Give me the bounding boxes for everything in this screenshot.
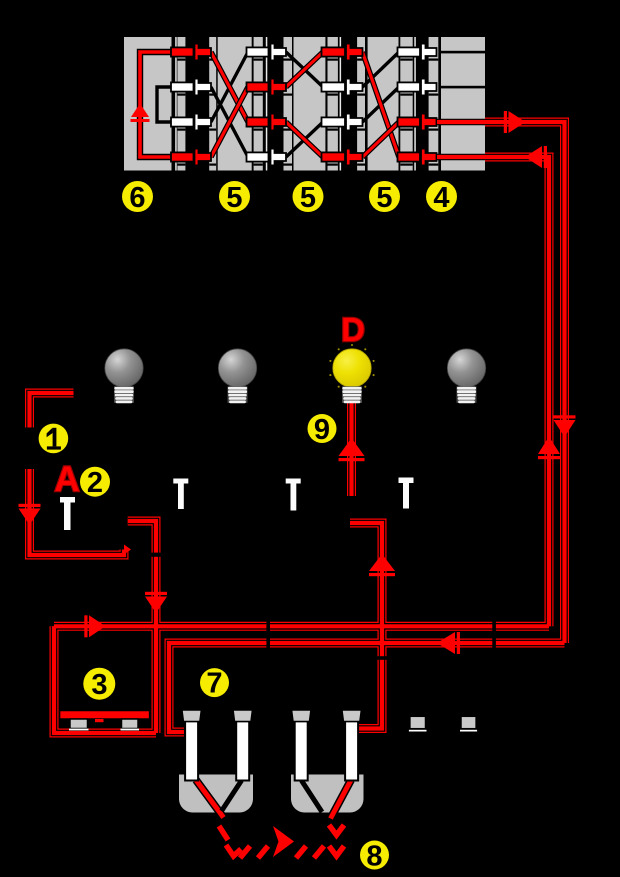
connector J3 row3 (white) <box>322 114 363 131</box>
wire: P4 link black 3-2 <box>363 87 400 122</box>
jack ticks on frame bars <box>177 59 438 166</box>
connector J1 row1 (red) <box>171 44 211 61</box>
empty jack cap left <box>410 716 426 728</box>
connector J3 row2 (white) <box>322 79 363 96</box>
connector J4 row2 (white) <box>398 79 437 96</box>
arrow left on row4 input <box>525 146 547 168</box>
wire joint cuts <box>150 553 496 660</box>
connector J2 row2 (red) <box>247 79 287 96</box>
plug 3 shaft <box>295 721 308 781</box>
arrow up on P1 loop <box>131 104 149 118</box>
plug 4 cap <box>342 710 362 722</box>
wire: P1 red loop row1-row4 <box>140 52 173 157</box>
wire: P2 link red 4-2 <box>211 87 248 157</box>
junction J2 frame bar left <box>254 37 263 171</box>
hook switch A (off-hook, lower) <box>60 497 75 530</box>
speech direction arrow <box>273 826 294 857</box>
wire: row3 output across P5 <box>437 119 486 126</box>
wire: P4 link black 2-1 <box>363 52 400 87</box>
arrow tip at A line contact <box>124 545 131 555</box>
connector J3 row4 (red) <box>322 149 363 166</box>
wire: P2 link black 2-4 <box>211 87 248 157</box>
line unit 3: center tab <box>95 719 104 722</box>
connector J4 row3 (red) <box>398 114 437 131</box>
svg-text:2: 2 <box>87 467 103 499</box>
arrow left on bus2 <box>437 632 460 654</box>
selector stage panel P4 <box>368 37 399 171</box>
P5 row divider line 1 <box>439 51 485 54</box>
svg-text:4: 4 <box>433 182 449 214</box>
callout 9 <box>308 414 337 446</box>
wire: P3 link red 3-4 <box>286 122 323 157</box>
callout 4 <box>426 181 457 214</box>
arrow down on right drop wire <box>554 415 576 437</box>
wire: P3 link black 1-2 <box>286 52 323 87</box>
callout 5b <box>293 181 324 214</box>
line unit 3: jack foot left <box>70 719 88 729</box>
callout 7 <box>200 668 229 700</box>
wire: P2 link black 3-1 <box>211 52 248 122</box>
junction J4 frame bar left <box>400 37 412 171</box>
connector J3 row1 (red) <box>322 44 363 61</box>
cord body right red lead <box>331 780 352 819</box>
wire: P3 link black 4-3 <box>286 122 323 157</box>
svg-text:8: 8 <box>366 841 382 873</box>
callout 6 <box>122 181 153 214</box>
callout 3 <box>83 668 115 701</box>
arrow up on plug4 riser <box>369 554 395 576</box>
junction J3 frame bar right <box>357 37 365 171</box>
svg-text:3: 3 <box>91 669 107 701</box>
svg-text:6: 6 <box>129 182 145 214</box>
plug 1 cap <box>182 710 202 722</box>
selector stage panel P5 <box>441 37 485 171</box>
svg-text:9: 9 <box>314 414 330 446</box>
junction J2 select line <box>266 37 268 171</box>
callout 1 <box>39 424 69 454</box>
cord circuit body right <box>291 775 364 813</box>
arrow down on subscriber A line <box>19 504 41 525</box>
svg-text:5: 5 <box>376 182 392 214</box>
junction J3 select line <box>340 37 342 171</box>
callout 8 <box>360 841 389 873</box>
lamp 4 (dark) <box>447 349 485 403</box>
selector stage panel P1 <box>124 37 172 171</box>
junction J1 frame bar right <box>209 37 216 171</box>
lamp 1 (subscriber A, dark) <box>105 349 143 403</box>
plug 2 cap <box>233 710 253 722</box>
junction J4 frame bar right <box>429 37 439 171</box>
empty jack cap right <box>461 716 476 728</box>
junction J4 select line <box>414 37 416 171</box>
main red wires (outer) <box>30 122 565 733</box>
main red wires (core shadow) <box>30 122 565 733</box>
svg-text:D: D <box>341 311 365 348</box>
wire: P3 link red 2-1 <box>286 52 323 87</box>
arrow right on row3 output <box>504 111 526 133</box>
selector stage panel P2 <box>218 37 252 171</box>
plug 4 shaft <box>345 721 358 781</box>
arrow right on bus1 <box>84 615 105 637</box>
junction J3 frame bar left <box>328 37 338 171</box>
hook switch C <box>286 479 301 511</box>
lamp 2 (dark) <box>218 349 256 403</box>
wire: P2 link red 1-3 <box>211 52 248 122</box>
callout 2 <box>80 467 110 499</box>
main red wires (core) <box>30 122 565 733</box>
arrow up to lamp D <box>339 438 365 461</box>
connector J1 row3 (white) <box>171 114 211 131</box>
junction J1 select line <box>175 37 177 171</box>
connector J4 row1 (white) <box>398 44 437 61</box>
wire: P1 black strap row2-row3 <box>157 87 172 122</box>
callout 5c <box>369 181 400 214</box>
svg-text:A: A <box>54 460 79 499</box>
connector J2 row1 (white) <box>247 44 287 61</box>
cord circuit body left <box>179 775 253 813</box>
speech path dashes <box>219 825 344 858</box>
cord body left black lead <box>222 781 242 812</box>
wire: P4 link red 4-3 <box>363 122 400 157</box>
P5 row divider line 2 <box>439 86 485 89</box>
svg-text:7: 7 <box>206 668 222 700</box>
junction J1 frame bar left <box>177 37 185 171</box>
arrow down on exchange drop wire <box>145 592 167 613</box>
hook switch D <box>399 478 414 509</box>
cord body left red lead <box>196 780 224 818</box>
callout 5a <box>219 181 250 214</box>
connector J1 row2 (white) <box>171 79 211 96</box>
connector J4 row4 (red) <box>398 149 437 166</box>
wire: P4 link red 1-4 <box>363 52 400 157</box>
plug 2 shaft <box>236 721 249 781</box>
lamp D (lit, yellow) <box>329 344 374 403</box>
junction J2 frame bar right <box>284 37 293 171</box>
plug 3 cap <box>292 710 312 722</box>
svg-text:5: 5 <box>226 182 242 214</box>
svg-text:5: 5 <box>300 182 316 214</box>
selector stage panel P3 <box>294 37 326 171</box>
connector J2 row3 (red) <box>247 114 287 131</box>
wire: row4 input across P5 <box>437 154 486 161</box>
connector J2 row4 (white) <box>247 149 287 166</box>
line unit 3: jack foot right <box>122 719 139 729</box>
arrow up on right riser wire <box>538 437 560 460</box>
line unit 3: contact rail <box>60 711 150 720</box>
hook switch B <box>173 479 188 510</box>
plug 1 shaft <box>185 721 198 781</box>
connector J1 row4 (red) <box>171 149 211 166</box>
cord body right black lead <box>302 781 323 813</box>
